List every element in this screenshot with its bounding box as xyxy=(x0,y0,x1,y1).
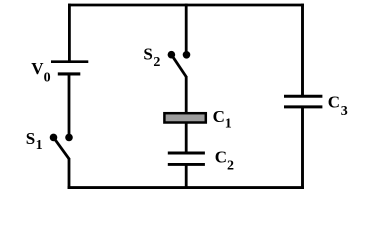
capacitor C3 top plate xyxy=(284,95,322,98)
capacitor C3 bottom plate xyxy=(284,105,322,108)
svg-text:S: S xyxy=(143,44,152,63)
battery V0 positive plate xyxy=(51,60,88,63)
capacitor C2 bottom plate xyxy=(168,163,205,166)
label C3 xyxy=(328,93,348,120)
switch S2 arm xyxy=(171,55,186,77)
svg-text:C: C xyxy=(215,148,227,167)
wire top xyxy=(68,4,304,7)
wire left lower xyxy=(68,158,71,189)
wire right lower xyxy=(301,107,304,189)
switch S1 pole contact node xyxy=(50,134,58,142)
svg-text:V: V xyxy=(31,59,44,78)
label C1 xyxy=(213,107,232,132)
switch S1 arm xyxy=(54,137,70,158)
svg-text:2: 2 xyxy=(227,158,234,173)
svg-text:S: S xyxy=(26,129,35,148)
capacitor C2 top plate xyxy=(168,152,205,155)
wire bottom xyxy=(68,186,304,189)
svg-text:1: 1 xyxy=(225,117,232,132)
wire middle third xyxy=(185,123,188,152)
svg-text:3: 3 xyxy=(341,104,348,119)
svg-text:C: C xyxy=(328,93,340,112)
svg-text:0: 0 xyxy=(44,71,51,86)
capacitor C1 dielectric-filled body xyxy=(164,113,205,122)
svg-text:C: C xyxy=(213,107,225,126)
svg-text:1: 1 xyxy=(36,138,43,153)
switch S1 fixed contact node xyxy=(65,134,73,142)
label S2 xyxy=(143,44,160,70)
wire left middle xyxy=(68,74,71,135)
wire right upper xyxy=(301,4,304,97)
switch S2 fixed contact node xyxy=(183,51,191,59)
battery V0 negative plate xyxy=(58,72,81,75)
svg-text:2: 2 xyxy=(153,55,160,70)
label V0 xyxy=(31,59,50,86)
wire left upper xyxy=(68,4,71,62)
wire middle upper xyxy=(185,4,188,52)
label S1 xyxy=(26,129,43,153)
switch S2 pole contact node xyxy=(168,51,176,59)
label C2 xyxy=(215,148,234,174)
wire middle second xyxy=(185,76,188,113)
wire middle lower xyxy=(185,164,188,189)
